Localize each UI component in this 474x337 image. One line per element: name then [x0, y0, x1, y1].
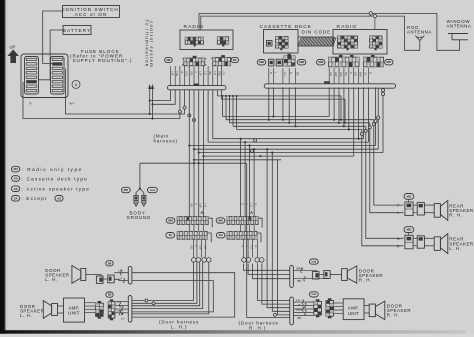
rear speaker RH label — [449, 204, 474, 218]
wire ignition switch to fuse block — [43, 11, 63, 64]
right strip end connector circles — [381, 88, 384, 152]
window antenna — [447, 19, 472, 40]
wires bus drops to RH door — [244, 264, 290, 305]
radio (left unit) box U1 — [180, 30, 233, 50]
inline connectors on LH door wires — [145, 299, 155, 305]
illumination feed wire 2 with arrow — [151, 84, 154, 120]
small antenna connector pair — [269, 59, 283, 66]
door harness RH connector lower — [290, 297, 294, 325]
svg-text:ACC or ON: ACC or ON — [75, 12, 108, 17]
svg-text:B: B — [299, 303, 301, 307]
svg-text:UNIT: UNIT — [348, 311, 360, 316]
DIN CODE label — [302, 29, 332, 34]
svg-text:R/L: R/L — [189, 204, 193, 209]
svg-text:R/L: R/L — [344, 72, 348, 77]
amp LH connector grid 1 — [96, 301, 104, 319]
rod antenna — [407, 25, 432, 40]
svg-text:GY: GY — [222, 72, 226, 76]
connector M37 — [385, 60, 393, 65]
svg-text:R/L: R/L — [189, 72, 193, 77]
door LH wire labels — [119, 269, 123, 281]
battery box — [63, 26, 91, 35]
right harness strip connector — [264, 81, 395, 88]
ignition switch box — [63, 6, 120, 18]
ground connector M116 — [148, 187, 158, 192]
radio (right unit) box U3 — [333, 30, 387, 55]
connector B3 — [106, 292, 113, 297]
wire bus to body ground — [136, 163, 144, 195]
bus wire B1 — [223, 116, 330, 118]
svg-text:R/L: R/L — [189, 246, 193, 251]
wire fuse to radio acc feed — [66, 69, 185, 115]
amp RH connector grid 2 — [326, 298, 334, 318]
radio (right unit) label — [337, 24, 358, 30]
wires RH harness to connector pair — [293, 270, 328, 278]
svg-text:L/B: L/B — [199, 72, 203, 76]
wires amp to grids — [85, 303, 96, 313]
door harness LH label — [159, 320, 199, 330]
svg-text:L/B: L/B — [199, 204, 203, 208]
wire radio to rod antenna — [201, 16, 420, 50]
amp LH wire labels — [118, 300, 125, 321]
door speaker RH upper label — [359, 268, 383, 282]
joint connector strip B1 left — [177, 231, 211, 242]
rear speaker RH connector M52 — [404, 194, 414, 200]
bus wire C8 body ground feed — [140, 162, 247, 164]
wires connector to LH door harness — [114, 273, 128, 281]
rear speaker LH label — [449, 237, 474, 251]
right radio inner grid right — [370, 36, 383, 50]
door harness RH connector upper — [290, 266, 294, 288]
wire radio dimmer to illumination 2 — [151, 90, 175, 106]
svg-text:LS: LS — [297, 298, 300, 302]
bus junction dot — [259, 155, 261, 157]
main harness label — [154, 133, 178, 143]
wire codes below joint strips — [189, 246, 258, 251]
bus wire C5 — [198, 152, 383, 154]
right strip far wires to bus — [374, 87, 380, 149]
wires to joint connector strips left — [189, 90, 203, 217]
bus wire B3 to rear feed L — [230, 122, 370, 124]
inline connector on RH amp wire — [274, 313, 277, 316]
svg-text:GY: GY — [364, 72, 368, 76]
svg-text:R. H.: R. H. — [449, 213, 462, 218]
legend AS active speaker type — [12, 186, 90, 192]
svg-text:L/W: L/W — [334, 72, 338, 77]
wires to joint connector strips right — [240, 138, 256, 217]
right radio mating connector right — [364, 55, 384, 67]
svg-text:R: R — [254, 204, 258, 206]
right unit wires group B turning left — [329, 87, 368, 156]
svg-text:harness): harness) — [154, 139, 178, 144]
bus wire C3 — [188, 144, 375, 146]
body harness connector circles left — [192, 239, 212, 262]
bus wire C2 — [208, 90, 368, 142]
joint connector B11 label — [216, 233, 225, 238]
rear speaker LH — [434, 234, 448, 254]
rear speaker RH connectors — [405, 199, 434, 215]
illumination feed wire 1 with arrow — [148, 84, 151, 115]
svg-text:M37: M37 — [386, 60, 391, 64]
svg-text:R: R — [29, 102, 31, 106]
rear speaker wire labels — [397, 204, 400, 249]
right unit wires group A with junction dots — [268, 87, 297, 127]
rear speaker RH — [434, 200, 448, 220]
wires grids to amp RH — [334, 303, 344, 314]
svg-text:BR: BR — [296, 72, 300, 76]
wires main bus drops to RH amp — [247, 148, 290, 317]
connector B4 — [106, 261, 113, 266]
bus wire C7 — [193, 159, 281, 161]
svg-text:R/B: R/B — [218, 72, 222, 77]
door speaker RH upper — [342, 266, 357, 283]
svg-text:BR: BR — [298, 279, 302, 283]
bus wire C1 — [213, 90, 364, 139]
to illumination control system label — [145, 20, 154, 69]
svg-text:LG: LG — [250, 204, 254, 207]
svg-text:R/G: R/G — [185, 72, 189, 77]
svg-text:BR/W: BR/W — [297, 266, 304, 270]
svg-text:M57: M57 — [124, 188, 129, 192]
svg-text:L. H.: L. H. — [20, 313, 32, 318]
svg-text:UP: UP — [10, 45, 16, 50]
svg-text:P: P — [397, 204, 399, 208]
svg-text:M36: M36 — [318, 60, 323, 64]
svg-text:P: P — [194, 72, 198, 74]
legend RO radio only type — [12, 166, 83, 172]
svg-text:BR: BR — [208, 72, 212, 76]
svg-text:L/B: L/B — [354, 72, 358, 76]
svg-text:AMP.: AMP. — [348, 306, 360, 311]
svg-text:LG: LG — [121, 316, 124, 320]
UP arrow — [7, 45, 19, 64]
cassette deck label — [260, 24, 312, 30]
svg-text:control system: control system — [149, 21, 154, 68]
amp RH connector grid 1 — [314, 299, 322, 317]
svg-text:EA: EA — [14, 196, 18, 200]
radio mating connector right — [211, 55, 232, 66]
door RH connector pair — [312, 271, 330, 279]
connector D103 — [309, 292, 318, 297]
body ground label — [127, 210, 152, 220]
svg-text:L/B: L/B — [199, 246, 203, 250]
svg-text:B: B — [269, 72, 273, 74]
svg-text:BATTERY: BATTERY — [63, 28, 91, 33]
svg-text:CD: CD — [14, 177, 18, 181]
wires radio connectors to harness strip — [171, 66, 222, 86]
right radio inner grid left — [338, 36, 358, 50]
right unit wire color labels — [269, 72, 373, 77]
legend EA except AS — [12, 196, 64, 202]
door harness RH label — [239, 320, 279, 330]
ground connector M57 — [122, 187, 131, 192]
inline connector on bus C jog 1 — [254, 139, 257, 142]
bus wire B5 to rear feed R — [237, 128, 362, 130]
radio harness connector M7 — [231, 57, 239, 62]
legend CD cassette deck type — [12, 176, 88, 182]
svg-text:AS: AS — [57, 196, 61, 200]
rear speaker LH connector M53 — [404, 227, 414, 233]
door RH wire labels upper — [297, 266, 304, 283]
svg-text:L. H.): L. H.) — [171, 325, 187, 330]
svg-text:M38: M38 — [299, 60, 304, 64]
svg-text:M52: M52 — [407, 194, 412, 198]
svg-text:P: P — [194, 246, 198, 248]
rear speaker feed wires with connectors — [360, 120, 403, 246]
wires between joint strips — [189, 224, 254, 231]
cassette deck inner connector small — [267, 41, 273, 47]
svg-text:L/W: L/W — [175, 72, 179, 77]
body harness connector circles right — [242, 239, 264, 262]
door RH detach hooks lower — [302, 300, 306, 315]
bus wire A1 — [218, 90, 343, 121]
svg-text:LG: LG — [283, 72, 287, 75]
connector M39 — [257, 60, 265, 65]
svg-text:: Radio only type: : Radio only type — [22, 167, 83, 172]
joint connector strip M64 right — [227, 217, 262, 228]
svg-text:R. H.: R. H. — [359, 278, 372, 283]
bus wire B2 to rear feed P — [226, 119, 374, 121]
bus wire C6 — [202, 155, 353, 157]
cassette mating connector — [284, 54, 295, 66]
wire radio to window antenna — [199, 13, 460, 50]
svg-text:P: P — [194, 204, 198, 206]
svg-text:B: B — [368, 72, 372, 74]
door RH detach hooks — [301, 268, 306, 281]
svg-text:B: B — [241, 246, 245, 248]
radio connector grid pins right — [217, 37, 228, 47]
svg-text:: Except: : Except — [22, 196, 48, 201]
door speaker LH upper — [72, 266, 86, 284]
connector M38 — [297, 60, 305, 65]
svg-text:BR: BR — [298, 316, 302, 320]
svg-text:L. H.: L. H. — [45, 277, 57, 282]
radio harness connector M6 — [165, 57, 173, 62]
bus wire A2 — [222, 90, 347, 124]
svg-text:LG: LG — [203, 72, 207, 75]
svg-text:R: R — [289, 72, 293, 74]
wires from left circles down to LH door — [132, 262, 209, 314]
svg-text:AMP.: AMP. — [68, 305, 80, 310]
scan edge bottom — [0, 330, 466, 334]
cassette deck inner grid — [276, 37, 289, 51]
svg-text:M6: M6 — [167, 58, 171, 62]
svg-text:L/R: L/R — [171, 72, 175, 76]
door harness LH connector upper — [128, 266, 132, 284]
fuse block label — [70, 49, 132, 63]
svg-text:ANTENNA: ANTENNA — [407, 30, 432, 35]
wires right unit connectors to strip — [269, 68, 369, 83]
svg-text:M39: M39 — [259, 60, 264, 64]
door LH detach hooks — [120, 270, 125, 283]
wire to RH speaker — [330, 274, 341, 276]
door speaker LH upper label — [45, 268, 69, 282]
wires amp to LH door harness — [115, 302, 128, 313]
radio (left unit) label — [184, 24, 205, 30]
inline connector on bus C jog 2 — [250, 149, 253, 152]
door speaker LH lower label — [20, 304, 44, 318]
svg-text:L: L — [397, 211, 399, 215]
svg-text:UNIT: UNIT — [68, 311, 80, 316]
radio connector grid pins left — [185, 37, 203, 46]
svg-text:GROUND: GROUND — [127, 215, 152, 220]
body ground symbol left — [134, 195, 139, 206]
fuse block — [21, 54, 68, 98]
svg-text:: Cassette deck type: : Cassette deck type — [22, 176, 88, 181]
svg-text:LG: LG — [203, 204, 207, 207]
rear speaker LH connectors — [405, 233, 434, 249]
door harness LH connector lower — [128, 296, 132, 323]
svg-text:SUPPLY ROUTING”.): SUPPLY ROUTING”.) — [73, 58, 133, 63]
door speaker RH lower — [369, 301, 385, 320]
wire fuse to radio battery feed — [23, 82, 180, 119]
right radio mating connector left — [329, 55, 360, 67]
inline connectors on left bundle — [178, 106, 195, 121]
joint connector strip M54 left — [177, 217, 212, 228]
amp unit LH box — [58, 298, 85, 322]
wire LH door speaker loop B — [132, 281, 213, 312]
bus junction drops from A — [222, 95, 238, 129]
svg-text:B: B — [397, 237, 399, 241]
svg-text:B: B — [180, 72, 184, 74]
svg-text:L/Y: L/Y — [213, 72, 217, 76]
svg-text:LG: LG — [250, 246, 254, 249]
cassette deck box U2 — [264, 30, 299, 54]
svg-text:R/Y: R/Y — [70, 102, 75, 106]
svg-text:R. H.: R. H. — [387, 313, 400, 318]
fuse number circle 6 — [72, 80, 80, 88]
radio mating connector left — [182, 56, 207, 66]
svg-text:M7: M7 — [233, 58, 237, 62]
left harness strip connector — [167, 84, 226, 90]
wires RH harness to amp grids — [293, 302, 313, 316]
joint connector M54 label — [166, 218, 175, 223]
door speaker LH lower — [43, 301, 57, 319]
svg-text:P: P — [349, 72, 353, 74]
svg-text:B/W: B/W — [359, 72, 363, 77]
amp LH detach hooks — [119, 302, 123, 316]
svg-text:R/G: R/G — [339, 72, 343, 77]
DIN code ribbon cable — [298, 37, 336, 46]
joint connector B1 label — [166, 233, 175, 238]
wire LH door speaker loop A — [132, 273, 235, 317]
antenna junction connector A — [369, 12, 372, 16]
amp unit RH box — [343, 299, 364, 320]
bus wire B4 to rear feed B — [233, 125, 366, 127]
antenna junction connector B — [373, 14, 376, 29]
wire codes above joint strips — [189, 204, 258, 215]
door speaker RH lower label — [387, 303, 411, 317]
svg-text:L/R: L/R — [329, 72, 333, 76]
svg-text:B: B — [241, 204, 245, 206]
door RH wire labels lower — [296, 298, 303, 320]
joint connector strip B11 right — [227, 231, 261, 242]
wire battery to fuse block — [39, 30, 64, 80]
radio wire color labels — [171, 72, 226, 77]
connector D104 — [309, 259, 318, 264]
svg-text:DIN CODE: DIN CODE — [302, 29, 332, 34]
svg-text:AS: AS — [14, 187, 18, 191]
body ground symbol right — [141, 195, 146, 206]
svg-text:M53: M53 — [407, 228, 412, 232]
wire radio dimmer to illumination 1 — [149, 90, 171, 102]
svg-text:ANTENNA: ANTENNA — [447, 24, 472, 29]
svg-text:R. H.): R. H.) — [249, 325, 266, 330]
door LH connector pair — [96, 275, 114, 283]
joint connector M64 label — [216, 218, 225, 223]
wire speaker to connector — [86, 275, 101, 277]
svg-text:: Active speaker type: : Active speaker type — [22, 187, 90, 192]
connector M36 — [317, 60, 325, 65]
svg-text:L. H.: L. H. — [449, 246, 462, 251]
wires amp RH to speaker — [364, 306, 369, 314]
amp LH connector grid 2 — [108, 299, 115, 320]
bus wire C4 — [193, 148, 378, 150]
